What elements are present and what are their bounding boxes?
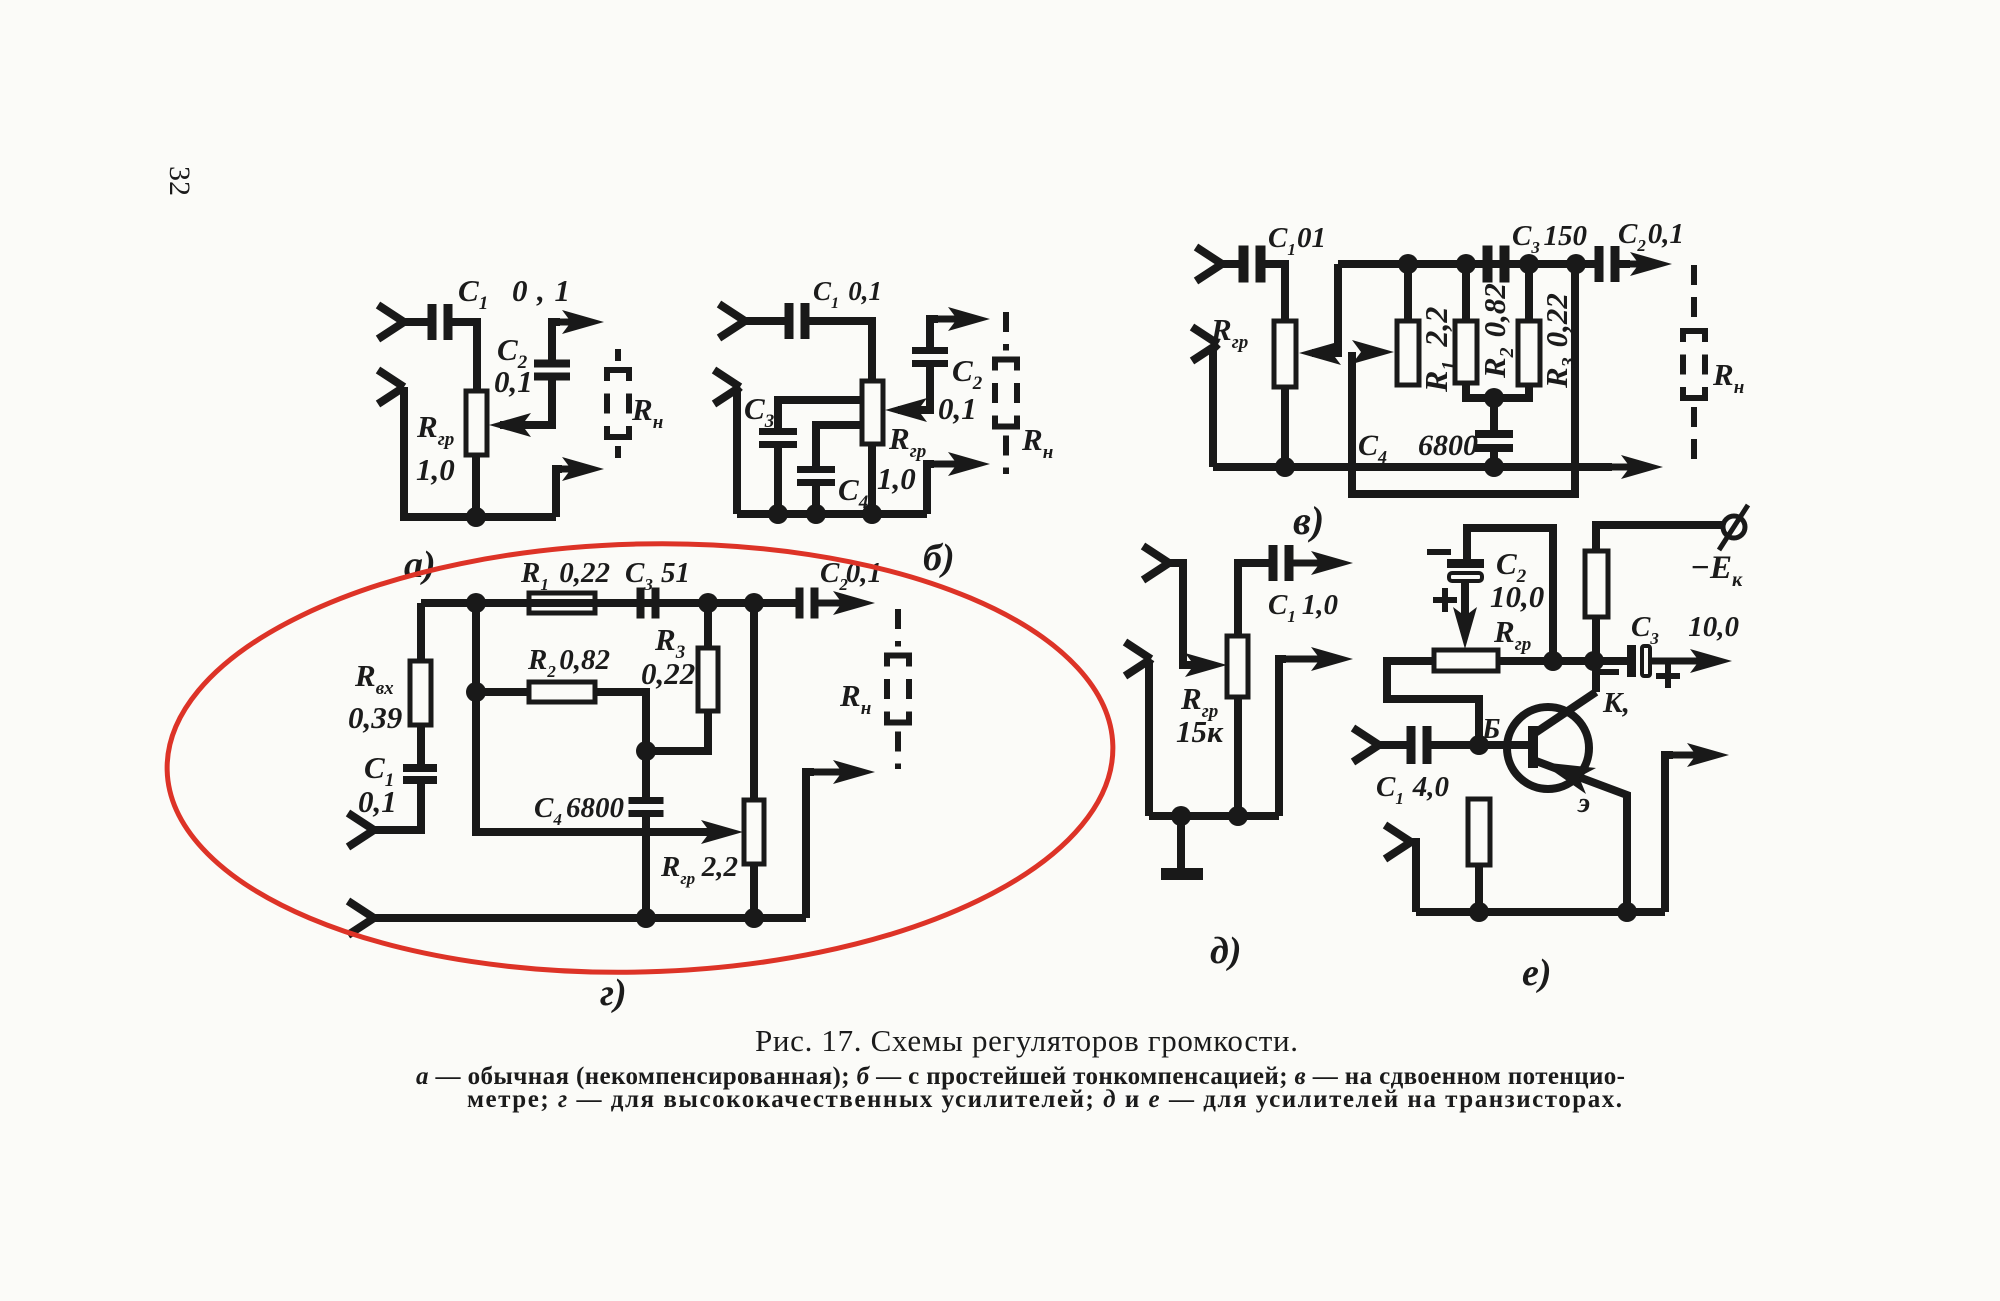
output arrow bottom (v) [1600,464,1649,471]
svg-text:0,1: 0,1 [1648,218,1684,250]
base resistor (e) [1468,799,1490,865]
terminal input 1 (d) [1143,546,1169,580]
capacitor C4 (g) [629,797,664,804]
capacitor C1 (a) [428,304,437,340]
svg-text:Б: Б [1481,713,1500,745]
wire C1 to base junction (e) [1428,741,1529,749]
svg-text:C3: C3 [1512,220,1540,257]
svg-text:R20,82: R20,82 [1477,283,1518,379]
svg-text:1,0: 1,0 [877,461,916,496]
potentiometer Rgr (b) [862,381,883,444]
output arrow 2 (d) [1279,656,1339,663]
svg-text:32: 32 [163,166,196,196]
output arrow 1 (b) [930,316,976,323]
wire input2 down to rail (v) [1213,344,1218,467]
svg-text:0,1: 0,1 [848,276,882,306]
wire bottom rail (a) [400,513,556,521]
wire C4 tap (b) [816,425,862,467]
transistor collector lead (e) [1535,692,1596,733]
wire base resistor to rail (e) [1475,865,1483,912]
wire input2 down to rail (b) [737,387,740,514]
junction dot C4-rail (v) [1484,457,1504,477]
svg-text:C4: C4 [1358,429,1387,467]
ground stub (d) [1177,816,1185,870]
capacitor C2 electrolytic (e) [1447,559,1484,568]
svg-text:10,0: 10,0 [1490,579,1544,614]
junction dot C4-rail (g) [636,908,656,928]
capacitor C2 (a) [534,360,570,368]
junction dot loop top (v) [1566,254,1586,274]
svg-text:е): е) [1522,952,1552,994]
wire rail riser to output 2 (a) [556,469,562,517]
terminal input 2 (g) [348,901,374,935]
wire R3 bottom (v) [1494,385,1529,398]
wire input2 down to rail (d) [1149,659,1151,816]
junction dot bottom rail (a) [466,507,486,527]
wire C4 to rail (b) [812,486,820,514]
output arrow 1 (a) [552,319,590,326]
collector load resistor (e) [1585,551,1608,617]
svg-text:C1: C1 [1376,771,1404,808]
wire C3 to rail (b) [774,448,782,514]
svg-text:Rгр: Rгр [888,421,926,462]
svg-text:4,0: 4,0 [1412,771,1449,803]
wire rail riser to output 2 (d) [1279,659,1286,816]
minus sign of C3 (e) [1597,669,1619,675]
wire bottom rail (d) [1149,812,1279,820]
wire C2 bottom to wiper (b) [898,367,930,410]
resistor R2 (v) [1455,321,1477,383]
wire left drop to Rvx (g) [417,603,425,661]
svg-text:R2: R2 [527,644,556,681]
wire C1 to Rgr top (b) [806,321,872,381]
red annotation ellipse around circuit g [162,532,1119,985]
wire C2 top to output (b) [930,319,938,347]
terminal input 1 (b) [719,304,745,338]
wiper arrow of Rgr (a) [489,413,531,437]
output arrow 2 (e) [1665,752,1715,759]
junction dot after C3 (g) [698,593,718,613]
wire junction to C4 (g) [642,751,650,797]
wire Rgr top to C1 (d) [1238,563,1272,636]
svg-text:К,: К, [1602,687,1630,719]
resistor Rvx (g) [410,661,431,725]
wiper arrow of Rgr (g) [701,820,743,844]
emitter arrow (e) [1540,762,1596,794]
svg-text:Рис. 17. Схемы регуляторов гро: Рис. 17. Схемы регуляторов громкости. [755,1023,1298,1058]
output arrow 2 (b) [927,461,976,468]
svg-text:C1: C1 [1268,589,1296,626]
svg-text:в): в) [1293,498,1324,543]
wire C1 to input1 (g) [374,783,421,830]
resistor R2 (g) [529,682,595,702]
potentiometer Rgr (g) [744,800,764,864]
wire R3 top stub (v) [1525,264,1533,321]
wire R2 right to junction (g) [595,692,646,751]
load resistor Rn dashed (v) [1691,265,1697,322]
svg-text:б): б) [923,537,955,579]
svg-text:2,2: 2,2 [701,851,738,883]
output arrow 1 (e) [1650,658,1718,665]
svg-text:0,1: 0,1 [512,273,570,308]
svg-text:C4: C4 [534,792,562,829]
svg-text:10,0: 10,0 [1688,611,1739,643]
wire C2 to output (v) [1616,260,1630,268]
svg-text:51: 51 [661,557,690,589]
wire Rgr bottom to rail (d) [1234,697,1242,816]
terminal -Ek slash [1719,505,1748,550]
wire Rgr bottom to rail (a) [472,455,480,517]
wire R2 left stub (g) [476,688,529,696]
output arrow 2 (a) [556,466,590,473]
svg-text:0,1: 0,1 [358,784,397,819]
wiper arrow of Rgr (v) [1299,341,1341,365]
wire C2 top loop (e) [1467,528,1553,660]
potentiometer Rgr (d) [1227,636,1248,697]
load resistor Rn dashed (b) [1003,312,1009,351]
svg-text:Rн: Rн [1021,422,1053,463]
wire R1 top stub (v) [1404,264,1412,321]
wire wiper feed vertical (g) [476,603,718,832]
wire C4 to rail (g) [642,817,650,918]
wire Rgr bottom (g) [750,864,758,918]
terminal input 2 (v) [1192,327,1218,361]
wiper arrow of Rgr (b) [885,398,927,422]
minus sign of C2 (e) [1427,549,1451,555]
wire Rgr right to C3 (e) [1498,657,1627,665]
svg-text:метре; г — для высококачествен: метре; г — для высококачественных усилит… [467,1086,1622,1113]
capacitor C1 (b) [785,303,794,339]
resistor R1 (g) [529,593,595,613]
potentiometer Rgr (a) [466,391,487,455]
output arrow top (v) [1625,261,1658,268]
terminal input 2 (e) [1385,825,1411,859]
transistor emitter lead (e) [1536,761,1627,912]
wire Rgr bottom (v) [1281,387,1289,467]
junction dot C4-rail (b) [806,504,826,524]
junction dot R2 top (v) [1456,254,1476,274]
wire rail riser to output 2 (g) [806,772,814,918]
junction dot base (e) [1469,735,1489,755]
svg-text:01: 01 [1297,222,1326,254]
wiper arrow onto Rgr (e) [1453,607,1477,649]
wire top rail (g) [421,599,800,607]
output arrow 2 (g) [806,769,861,776]
terminal input 1 (v) [1196,247,1222,281]
wire rail riser to output 2 (b) [927,464,934,514]
wire C2 to wiper arrow shaft (e) [1461,581,1469,630]
wire collector vertical (e) [1592,617,1600,692]
output arrow 1 (d) [1290,560,1339,567]
svg-text:Rвх: Rвх [354,658,394,699]
wire input1 to C1 (a) [404,318,430,326]
wire R1 wiper feed loop (v) [1352,264,1575,494]
wire C3 tap (b) [778,400,862,429]
ground symbol (d) [1161,868,1203,880]
junction dot Rgr-rail (g) [744,908,764,928]
wiper arrow of Rgr (d) [1185,653,1227,677]
svg-text:−Eк: −Eк [1690,550,1743,591]
svg-text:0,1: 0,1 [938,391,977,426]
svg-text:C3: C3 [1631,611,1659,648]
terminal input 1 (a) [378,305,404,339]
wire Rgr bottom to rail (b) [868,444,876,514]
wire R3 bottom to junction (g) [646,711,708,751]
junction dot Rgr top (g) [744,593,764,613]
wiper arrow of R1 (v) [1352,340,1394,364]
svg-text:R1: R1 [520,557,549,594]
terminal input 1 (g) [348,813,374,847]
wire R2 bottom (v) [1466,383,1494,398]
resistor R3 (g) [698,648,718,711]
capacitor C1 (d) [1269,545,1278,581]
output arrow top (g) [816,600,861,607]
transistor circle (e) [1507,707,1589,789]
junction dot top-left (g) [466,593,486,613]
junction dot C3-rail (b) [768,504,788,524]
capacitor C3 electrolytic (e) [1627,645,1636,677]
terminal input 1 (e) [1353,728,1379,762]
svg-text:15к: 15к [1176,714,1224,749]
svg-text:0,39: 0,39 [348,700,402,735]
svg-text:C3: C3 [625,557,653,594]
junction dot ground (d) [1171,806,1191,826]
wire C4 to rail (v) [1490,448,1498,467]
wire top rail feed to wiper (v) [1312,264,1338,353]
svg-text:Rн: Rн [631,392,663,433]
svg-text:6800: 6800 [1418,429,1478,462]
svg-text:0,22: 0,22 [641,656,695,691]
capacitor C1 (e) [1407,726,1416,764]
capacitor C2 (g) [796,588,804,619]
resistor R3 (v) [1518,321,1540,385]
wire input1 to wiper (d) [1169,563,1200,665]
wire C4 stub (v) [1490,398,1498,430]
wire top rail (v) [1338,260,1598,268]
potentiometer Rgr (v) [1274,321,1296,387]
junction dot R2 left (g) [466,682,486,702]
wire R3 top stub (g) [704,603,712,648]
potentiometer R1 (v) [1397,321,1419,385]
svg-text:C2: C2 [952,353,983,394]
load resistor Rn dashed (a) [615,349,621,361]
junction dot Rgr-rail (v) [1275,457,1295,477]
svg-text:6800: 6800 [566,792,624,824]
transistor base bar (e) [1528,726,1538,768]
wire input2 down to rail (e) [1411,842,1416,912]
wire Rgr left loop to base (e) [1387,661,1479,745]
wire Rgr top long stub (g) [750,603,758,800]
junction dot emitter rail (e) [1617,902,1637,922]
svg-text:C1: C1 [1268,222,1296,259]
svg-text:0,1: 0,1 [494,364,533,399]
terminal input 2 (d) [1125,642,1151,676]
terminal -Ek circle [1723,516,1745,538]
svg-text:R30,22: R30,22 [1539,293,1580,389]
svg-text:Rн: Rн [1712,357,1744,398]
capacitor C3 (b) [759,428,797,435]
wire bottom rail (g) [374,914,806,922]
terminal input 2 (b) [714,370,740,404]
svg-text:150: 150 [1544,220,1588,252]
svg-text:C4: C4 [838,472,868,513]
capacitor C2 (b) [912,347,948,354]
capacitor C4 (v) [1475,430,1513,438]
junction dot loop right (e) [1543,651,1563,671]
svg-text:э: э [1577,787,1590,819]
svg-text:1,0: 1,0 [416,452,455,487]
junction dot R3 top (v) [1519,254,1539,274]
svg-text:Rгр: Rгр [660,851,695,888]
junction dot Rgr-rail (d) [1228,806,1248,826]
plus sign of C2 (e) [1433,588,1457,612]
wire bottom rail (e) [1416,908,1665,916]
terminal input 2 (a) [378,370,404,404]
svg-text:Rн: Rн [839,678,871,719]
svg-text:Rгр: Rгр [416,409,454,450]
svg-text:0,82: 0,82 [559,644,610,676]
capacitor C1 (v) [1239,246,1249,283]
wire C1 to Rgr top (v) [1262,264,1285,321]
junction dot R2 R3 C4 (g) [636,741,656,761]
plus sign of C3 (e) [1656,664,1680,688]
junction dot collector (e) [1584,651,1604,671]
wire C2 top to output (a) [552,322,560,361]
junction dot Rgr-rail (b) [862,504,882,524]
capacitor C3 (g) [637,588,645,619]
svg-text:C3: C3 [744,391,774,432]
wire R2 top stub (v) [1462,264,1470,321]
svg-text:1,0: 1,0 [1302,589,1338,621]
svg-text:д): д) [1210,930,1242,972]
wire input1 to C1 (b) [745,317,787,325]
junction dot base-resistor rail (e) [1469,902,1489,922]
wire C1 to Rgr top (a) [449,322,477,391]
load resistor Rn dashed (g) [895,609,901,647]
svg-text:г): г) [600,972,627,1014]
junction dot R2 R3 C4 (v) [1484,388,1504,408]
svg-text:C1: C1 [813,276,839,312]
capacitor C4 (b) [797,466,835,473]
svg-text:а): а) [404,544,436,586]
wire rail riser to output 2 (e) [1665,755,1673,912]
wire bottom rail (v) [1213,463,1612,471]
capacitor C3 (v) [1483,246,1493,283]
wire bottom rail (b) [737,510,927,518]
capacitor C2 (v) [1595,246,1604,282]
wire collector resistor to -Ek rail (e) [1596,525,1722,551]
potentiometer Rgr horizontal (e) [1434,650,1498,671]
junction dot R1 top (v) [1398,254,1418,274]
capacitor C1 (g) [403,764,437,772]
svg-text:0,22: 0,22 [559,557,610,589]
wire input1 to C1 (v) [1222,260,1241,268]
wire Rvx to C1 (g) [417,725,425,764]
wire C2 bottom to wiper (a) [500,379,552,425]
svg-text:C2: C2 [1618,218,1646,255]
svg-text:C1: C1 [458,273,488,314]
wire input1 to C1 (e) [1379,741,1408,749]
wire input2 down to rail (a) [400,387,408,517]
